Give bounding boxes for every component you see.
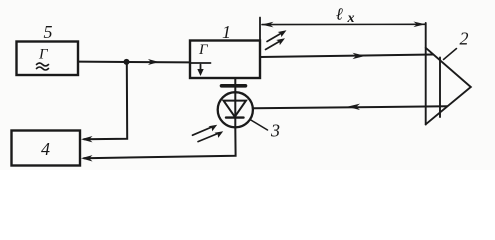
- dimension line lx: [262, 23, 425, 25]
- retroreflector 2: inner face line: [439, 58, 441, 118]
- wire from junction down to block 4: [84, 62, 127, 139]
- dimension arrow right: [413, 22, 425, 28]
- svg-text:5: 5: [44, 22, 53, 42]
- retroreflector 2: front face: [425, 23, 427, 125]
- svg-text:2: 2: [460, 29, 469, 49]
- leader line to label 3: [250, 120, 268, 131]
- block 1 (laser transmitter) box: [190, 41, 260, 79]
- incoming light arrows at photodiode: [193, 125, 224, 142]
- wavy approx sign inside block 5: [37, 63, 49, 70]
- svg-text:3: 3: [270, 121, 280, 141]
- outgoing beam from block 1 to reflector: [260, 55, 433, 58]
- photodiode cathode bar: [226, 116, 244, 118]
- block 5 (generator) box: [17, 42, 79, 76]
- svg-text:Г: Г: [38, 47, 49, 63]
- block 4 box: [12, 131, 81, 166]
- radiation arrows at laser output (upper pair): [266, 30, 287, 49]
- arrowhead on wire to block 1: [148, 59, 159, 65]
- arrowhead on outgoing beam: [353, 53, 366, 59]
- svg-text:ℓ: ℓ: [336, 5, 343, 24]
- wire from block 1 down through photodiode to block 4: [84, 78, 236, 158]
- svg-text:4: 4: [41, 139, 50, 159]
- leader line to label 2: [444, 49, 457, 60]
- photodiode top bar: [222, 84, 246, 88]
- svg-text:Г: Г: [198, 42, 209, 58]
- label lx: [336, 5, 355, 27]
- return beam from reflector to photodiode: [253, 106, 447, 108]
- arrowhead into block 4 (lower): [81, 155, 93, 161]
- arrowhead on return beam: [347, 104, 360, 110]
- dimension arrow left: [262, 22, 274, 28]
- svg-text:1: 1: [222, 22, 231, 42]
- dimension end stop above block 1: [259, 18, 261, 41]
- wire from block 5 to block 1: [78, 61, 190, 64]
- junction node: [124, 59, 130, 65]
- arrowhead into block 4 (upper): [81, 136, 93, 142]
- down arrow inside block 1: [197, 65, 203, 77]
- photodiode triangle: [224, 101, 247, 117]
- divider line under Г in block 1: [190, 62, 211, 64]
- svg-text:x: x: [347, 11, 355, 26]
- retroreflector 2: prism triangle: [426, 48, 471, 125]
- photodiode circle: [218, 92, 253, 127]
